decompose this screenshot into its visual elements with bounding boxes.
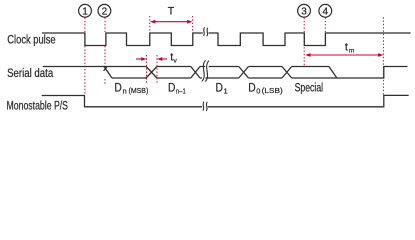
svg-text:n–1: n–1: [176, 86, 186, 95]
circled number 2: [98, 4, 111, 17]
svg-text:Serial data: Serial data: [7, 66, 53, 80]
dotted marker line tv right (x=157): [156, 55, 158, 84]
serial data crossover 3: [239, 67, 249, 79]
svg-text:4: 4: [323, 6, 329, 17]
serial data eye close merge: [329, 67, 337, 79]
svg-text:Clock pulse: Clock pulse: [7, 32, 55, 46]
clock break symbol: [203, 27, 204, 35]
svg-text:2: 2: [102, 6, 108, 17]
circled number 1: [79, 4, 92, 17]
serial data top rail: [104, 66, 329, 68]
svg-text:D: D: [114, 81, 122, 95]
serial data crossover 4: [282, 67, 292, 79]
dotted marker line T right (x=192.6): [192, 16, 194, 33]
serial data crossover 1: [146, 67, 157, 79]
dotted marker line at monostable rise (x=383.4): [382, 17, 384, 95]
monostable break symbol: [203, 102, 204, 111]
svg-text:T: T: [168, 6, 175, 18]
dotted marker line at clock edge 2 (x=105): [104, 18, 106, 85]
svg-text:3: 3: [301, 6, 307, 17]
svg-text:(MSB): (MSB): [129, 86, 149, 95]
serial data bottom rail: [112, 77, 337, 79]
svg-text:1: 1: [224, 86, 228, 95]
circled number 3: [298, 4, 311, 17]
tv arrows: [136, 57, 167, 61]
svg-text:0: 0: [256, 86, 260, 95]
serial data crossover 2: [191, 67, 200, 79]
serial data fork diagonal: [104, 67, 112, 79]
svg-text:t: t: [345, 42, 348, 54]
svg-text:1: 1: [82, 6, 88, 17]
svg-text:D: D: [168, 81, 176, 95]
svg-text:Monostable P/S: Monostable P/S: [7, 99, 69, 113]
monostable waveform: [42, 95, 409, 106]
circled number 4: [319, 4, 332, 17]
dotted marker line at clock edge 3 (x=304.2): [303, 18, 305, 67]
serial data break symbol: [202, 60, 206, 81]
dotted marker line tv left (x=146.5): [146, 55, 148, 84]
T period arrow: [150, 20, 192, 24]
dotted marker line at clock edge 4 (x=325.3): [324, 18, 326, 34]
svg-text:Special: Special: [295, 81, 324, 95]
svg-text:m: m: [349, 48, 355, 55]
svg-text:D: D: [248, 81, 256, 95]
svg-text:(LSB): (LSB): [262, 86, 284, 95]
svg-text:n: n: [123, 86, 127, 95]
svg-text:D: D: [216, 81, 224, 95]
dotted marker line at clock edge 1 (x=84.9): [84, 18, 86, 95]
clock waveform: [42, 33, 203, 46]
tm measurement arrow: [305, 53, 383, 57]
serial data waveform: lead-in single line: [43, 66, 104, 68]
serial data tail: low then step up to high: [337, 67, 408, 79]
dotted marker line T left (x=149.8): [149, 16, 151, 33]
